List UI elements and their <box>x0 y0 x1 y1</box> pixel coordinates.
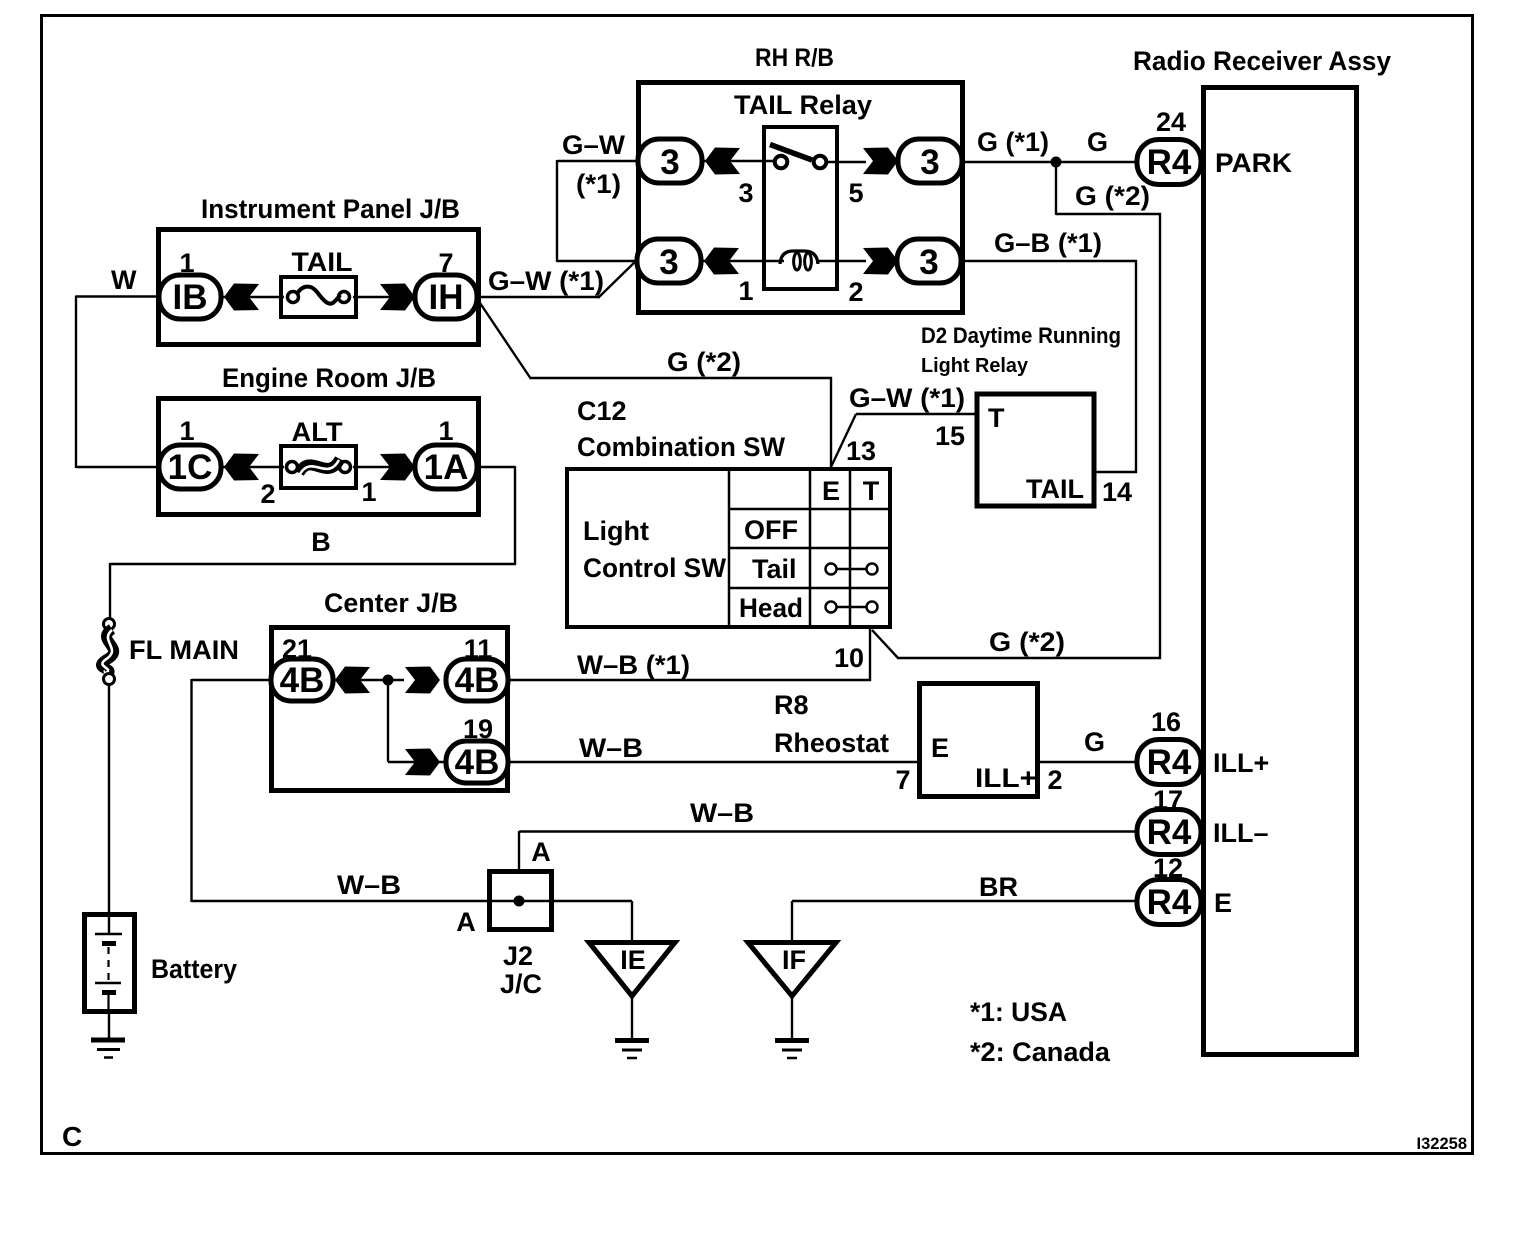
arrow into IB <box>224 284 259 311</box>
svg-text:W–B (*1): W–B (*1) <box>577 650 690 680</box>
pin 7 of rheostat <box>895 765 910 795</box>
svg-text:A: A <box>456 907 476 937</box>
pin 1 of relay <box>738 276 753 306</box>
wire W-B (*1) from 11 4B to combination switch pin 10 <box>508 679 871 681</box>
svg-text:*1: USA: *1: USA <box>970 997 1067 1027</box>
label BR <box>979 872 1018 902</box>
connector R4 pin24 <box>1137 140 1201 185</box>
label G <box>1087 127 1108 157</box>
svg-text:1: 1 <box>179 248 194 278</box>
svg-text:G (*1): G (*1) <box>977 127 1049 157</box>
RH R/B title <box>755 44 834 72</box>
wire G (*2) from IH to combination switch <box>480 303 832 469</box>
wire through J2 to IE ground <box>192 901 633 943</box>
label I32258 (figure number) <box>1417 1135 1467 1153</box>
svg-text:J2: J2 <box>503 941 533 971</box>
pin 12 <box>1153 853 1183 883</box>
wire from 21 4B down to J2 junction <box>192 679 273 902</box>
svg-text:J/C: J/C <box>500 969 542 999</box>
ground under battery <box>91 1040 125 1058</box>
svg-text:ILL+: ILL+ <box>975 763 1037 793</box>
svg-text:C: C <box>62 1121 82 1152</box>
wire W-B from 19 4B to rheostat <box>508 761 918 763</box>
svg-text:R4: R4 <box>1147 883 1192 922</box>
label A above J2 <box>531 837 551 867</box>
column header E <box>822 476 840 506</box>
table inner lines <box>729 467 892 629</box>
svg-text:3: 3 <box>659 243 678 282</box>
label Battery <box>151 954 237 984</box>
svg-text:(*1): (*1) <box>576 169 621 199</box>
note *1 USA <box>970 997 1067 1027</box>
label G (*2) left <box>667 347 741 377</box>
connector R4 pin16 <box>1137 740 1201 785</box>
arrow out of 21 4B <box>335 667 370 694</box>
battery <box>85 915 135 1015</box>
connector R4 pin12 <box>1137 880 1201 925</box>
fusible link ALT <box>281 446 356 488</box>
wire 1C to ALT link <box>221 466 284 468</box>
label W-B at J2 <box>337 870 401 900</box>
relay inner box <box>764 127 837 289</box>
label B <box>311 527 331 557</box>
Instrument Panel J/B title <box>201 194 460 224</box>
relay coil <box>780 251 818 270</box>
svg-text:7: 7 <box>895 765 910 795</box>
svg-text:E: E <box>822 476 840 506</box>
arrow top-right <box>863 148 898 175</box>
wire G rheostat to ILL+ <box>1039 761 1139 763</box>
svg-text:14: 14 <box>1102 477 1132 507</box>
svg-text:17: 17 <box>1153 785 1183 815</box>
junction node G wire <box>1051 157 1062 168</box>
svg-text:W–B: W–B <box>337 870 401 900</box>
svg-text:T: T <box>863 476 880 506</box>
svg-text:4B: 4B <box>455 661 500 700</box>
svg-text:3: 3 <box>920 143 939 182</box>
fuse TAIL <box>281 277 356 317</box>
svg-text:1: 1 <box>361 477 376 507</box>
svg-text:Light: Light <box>583 516 649 546</box>
svg-text:ILL+: ILL+ <box>1213 748 1269 778</box>
Center J/B box <box>272 628 508 791</box>
pin 7 of IH <box>438 248 453 278</box>
pin 15 of D2 <box>935 421 965 451</box>
svg-text:Control SW: Control SW <box>583 553 726 583</box>
svg-text:I32258: I32258 <box>1417 1135 1467 1153</box>
connector 4B pin21 <box>271 659 333 701</box>
svg-text:3: 3 <box>919 243 938 282</box>
wire down to 19 4B <box>388 680 448 762</box>
junction node in J2 <box>514 896 525 907</box>
connector IH <box>415 275 477 319</box>
wire G (*2) from table to PARK junction <box>872 162 1161 659</box>
label E at R4 <box>1214 888 1232 918</box>
label W-B rheostat wire <box>579 733 643 763</box>
connector 3 top-left <box>638 139 702 183</box>
wire ALT to 1A <box>353 466 415 468</box>
svg-text:RH R/B: RH R/B <box>755 44 834 72</box>
wire coil to bottom-right connector <box>816 260 866 262</box>
combination switch table box <box>567 469 890 627</box>
svg-text:Radio Receiver Assy: Radio Receiver Assy <box>1133 46 1391 76</box>
wire to relay coil <box>700 260 784 262</box>
wire G to PARK <box>961 161 1139 163</box>
label W-B at ILL- <box>690 798 754 828</box>
svg-text:R8: R8 <box>774 690 809 720</box>
Engine Room J/B box <box>159 399 479 515</box>
Instrument Panel J/B box <box>159 230 479 345</box>
svg-text:TAIL: TAIL <box>1026 474 1084 504</box>
svg-text:R4: R4 <box>1147 813 1192 852</box>
svg-text:G (*2): G (*2) <box>1075 181 1150 211</box>
pin 13 <box>846 436 876 466</box>
arrow into IH <box>380 284 415 311</box>
svg-text:Tail: Tail <box>752 554 797 584</box>
svg-text:Instrument Panel J/B: Instrument Panel J/B <box>201 194 460 224</box>
svg-text:G: G <box>1087 127 1108 157</box>
pin 2 of relay <box>848 277 863 307</box>
svg-text:IB: IB <box>173 278 208 317</box>
pin 10 <box>834 643 864 673</box>
pin 1 of IB <box>179 248 194 278</box>
svg-text:1A: 1A <box>424 448 469 487</box>
label G (*2) bottom <box>989 627 1065 657</box>
pin 21 <box>282 634 312 664</box>
wire FL MAIN to battery <box>108 684 110 933</box>
label ALT <box>292 417 344 447</box>
svg-text:D2 Daytime Running: D2 Daytime Running <box>921 323 1121 348</box>
svg-text:W–B: W–B <box>690 798 754 828</box>
pin 1 of 1C <box>179 416 194 446</box>
svg-text:7: 7 <box>438 248 453 278</box>
connector 4B pin11 <box>446 659 508 701</box>
pin 2 of rheostat <box>1047 765 1062 795</box>
ground point IE <box>589 943 675 1059</box>
pin 1 of ALT <box>361 477 376 507</box>
svg-text:W: W <box>111 265 137 295</box>
note *2 Canada <box>970 1037 1111 1067</box>
svg-text:ILL–: ILL– <box>1213 818 1269 848</box>
label ILL- <box>1213 818 1269 848</box>
svg-text:G–W (*1): G–W (*1) <box>488 266 604 296</box>
svg-text:TAIL: TAIL <box>292 247 353 277</box>
connector 4B pin19 <box>446 741 508 783</box>
svg-text:19: 19 <box>463 714 493 744</box>
Radio Receiver Assy box <box>1204 88 1357 1055</box>
label W-B (*1) <box>577 650 690 680</box>
svg-text:IF: IF <box>782 945 806 975</box>
svg-text:3: 3 <box>738 178 753 208</box>
wire TAIL fuse to IH <box>353 296 415 298</box>
svg-text:1: 1 <box>438 416 453 446</box>
Center J/B title <box>324 588 458 618</box>
connector 1A <box>415 445 477 489</box>
svg-text:3: 3 <box>660 143 679 182</box>
label C12 <box>577 396 627 426</box>
wire switch to top-right connector <box>827 161 866 163</box>
wire D2 pin 14 <box>1095 471 1137 473</box>
svg-text:11: 11 <box>464 634 493 664</box>
wire W-B from ILL- to J2 <box>519 831 1139 870</box>
svg-text:B: B <box>311 527 331 557</box>
svg-text:*2: Canada: *2: Canada <box>970 1037 1111 1067</box>
svg-text:FL MAIN: FL MAIN <box>129 635 239 665</box>
pin 5 of relay <box>848 178 863 208</box>
label G-B (*1) <box>994 228 1102 258</box>
pin 11 <box>464 634 493 664</box>
pin 14 of D2 <box>1102 477 1132 507</box>
tail row contacts <box>826 564 878 575</box>
head row contacts <box>826 602 878 613</box>
label E in rheostat <box>931 733 949 763</box>
label PARK <box>1215 148 1293 178</box>
svg-text:G–B (*1): G–B (*1) <box>994 228 1102 258</box>
wire to switch contact <box>701 160 775 162</box>
svg-text:G–W (*1): G–W (*1) <box>849 383 965 413</box>
svg-text:1: 1 <box>738 276 753 306</box>
connector 3 bottom-right <box>897 239 961 283</box>
arrow into 11 4B <box>405 667 440 694</box>
label W <box>111 265 137 295</box>
arrow into 19 4B <box>405 749 440 776</box>
arrow top-left <box>705 148 740 175</box>
svg-text:BR: BR <box>979 872 1018 902</box>
svg-text:R4: R4 <box>1147 743 1192 782</box>
R8 rheostat box <box>920 684 1038 797</box>
svg-text:Light Relay: Light Relay <box>921 354 1029 377</box>
svg-text:Head: Head <box>739 593 803 623</box>
svg-text:ALT: ALT <box>292 417 344 447</box>
wire W from IB to 1C (left route) <box>76 296 160 469</box>
pin 24 <box>1156 107 1186 137</box>
svg-text:Battery: Battery <box>151 954 237 984</box>
svg-text:21: 21 <box>282 634 312 664</box>
wire battery to ground <box>108 1014 110 1039</box>
svg-text:T: T <box>988 403 1005 433</box>
connector 3 top-right <box>898 139 962 183</box>
svg-text:G–W: G–W <box>562 130 626 160</box>
svg-text:PARK: PARK <box>1215 148 1293 178</box>
D2 daytime running light relay box <box>977 394 1094 506</box>
label Head <box>739 593 803 623</box>
junction node in Center J/B <box>383 675 394 686</box>
RH R/B box <box>639 83 963 313</box>
svg-text:C12: C12 <box>577 396 627 426</box>
svg-text:Combination SW: Combination SW <box>577 432 785 462</box>
label FL MAIN <box>129 635 239 665</box>
svg-text:16: 16 <box>1151 707 1181 737</box>
svg-text:4B: 4B <box>455 743 500 782</box>
label G (*1) <box>977 127 1049 157</box>
J2 junction connector box <box>490 872 552 930</box>
label Light <box>583 516 649 546</box>
svg-text:15: 15 <box>935 421 965 451</box>
label J/C <box>500 969 542 999</box>
svg-text:10: 10 <box>834 643 864 673</box>
wire IH to RH R/B lower connector <box>477 260 637 298</box>
svg-text:OFF: OFF <box>744 515 798 545</box>
svg-text:R4: R4 <box>1147 143 1192 182</box>
wire IB to TAIL fuse <box>221 296 284 298</box>
connector R4 pin17 <box>1137 810 1201 855</box>
svg-text:1C: 1C <box>168 448 213 487</box>
Radio Receiver Assy title <box>1133 46 1391 76</box>
wire between 4B connectors <box>333 679 404 681</box>
wire pin10 down to W-B wire <box>869 629 871 681</box>
svg-text:IH: IH <box>429 278 464 317</box>
Light Relay label <box>921 354 1029 377</box>
label Combination SW <box>577 432 785 462</box>
pin 3 of relay <box>738 178 753 208</box>
TAIL Relay label <box>734 90 872 120</box>
label (*1) <box>576 169 621 199</box>
connector 3 bottom-left <box>637 239 701 283</box>
svg-text:5: 5 <box>848 178 863 208</box>
label Rheostat <box>774 728 889 758</box>
wire BR from IF to E <box>792 900 1139 902</box>
label ILL+ in rheostat <box>975 763 1037 793</box>
svg-text:4B: 4B <box>280 661 325 700</box>
pin 16 <box>1151 707 1181 737</box>
svg-text:13: 13 <box>846 436 876 466</box>
svg-text:TAIL Relay: TAIL Relay <box>734 90 872 120</box>
Engine Room J/B title <box>222 363 436 393</box>
label G-W <box>562 130 626 160</box>
svg-text:Engine Room J/B: Engine Room J/B <box>222 363 436 393</box>
svg-text:Center J/B: Center J/B <box>324 588 458 618</box>
svg-text:24: 24 <box>1156 107 1186 137</box>
svg-text:W–B: W–B <box>579 733 643 763</box>
label G (*2) top <box>1075 181 1150 211</box>
connector IB <box>159 275 221 319</box>
connector 1C <box>159 445 221 489</box>
label J2 <box>503 941 533 971</box>
svg-text:1: 1 <box>179 416 194 446</box>
arrow into 1C <box>224 454 259 481</box>
label G at ILL+ <box>1084 727 1105 757</box>
svg-text:G (*2): G (*2) <box>667 347 741 377</box>
svg-text:A: A <box>531 837 551 867</box>
relay switch <box>770 145 826 169</box>
svg-text:2: 2 <box>848 277 863 307</box>
D2 Daytime Running label <box>921 323 1121 348</box>
label R8 <box>774 690 809 720</box>
svg-text:G: G <box>1084 727 1105 757</box>
label C (page id) <box>62 1121 82 1152</box>
pin 2 of ALT <box>260 479 275 509</box>
label G-W (*1) at IH <box>488 266 604 296</box>
label T in D2 <box>988 403 1005 433</box>
svg-text:E: E <box>1214 888 1232 918</box>
label A left of J2 <box>456 907 476 937</box>
arrow bottom-left <box>704 248 739 275</box>
label G-W (*1) at D2 <box>849 383 965 413</box>
label TAIL <box>292 247 353 277</box>
svg-text:G (*2): G (*2) <box>989 627 1065 657</box>
svg-text:E: E <box>931 733 949 763</box>
label ILL+ <box>1213 748 1269 778</box>
wire G-W (*1) into D2 pin 15 <box>831 414 976 467</box>
arrow into 1A <box>380 454 415 481</box>
arrow bottom-right <box>863 248 898 275</box>
svg-text:IE: IE <box>620 945 646 975</box>
wire B from 1A to FL MAIN <box>110 466 516 619</box>
ground point IF <box>748 901 836 1058</box>
label TAIL in D2 <box>1026 474 1084 504</box>
fusible link FL MAIN <box>102 619 115 685</box>
svg-text:12: 12 <box>1153 853 1183 883</box>
svg-text:2: 2 <box>1047 765 1062 795</box>
label Control SW <box>583 553 726 583</box>
wire bracket G-W (*1) left of RH R/B <box>557 160 641 262</box>
svg-text:2: 2 <box>260 479 275 509</box>
pin 1 of 1A <box>438 416 453 446</box>
label OFF <box>744 515 798 545</box>
label Tail <box>752 554 797 584</box>
pin 19 <box>463 714 493 744</box>
svg-text:Rheostat: Rheostat <box>774 728 889 758</box>
column header T <box>863 476 880 506</box>
pin 17 <box>1153 785 1183 815</box>
wire G-B (*1) from relay to D2 pin 14 <box>960 260 1137 473</box>
